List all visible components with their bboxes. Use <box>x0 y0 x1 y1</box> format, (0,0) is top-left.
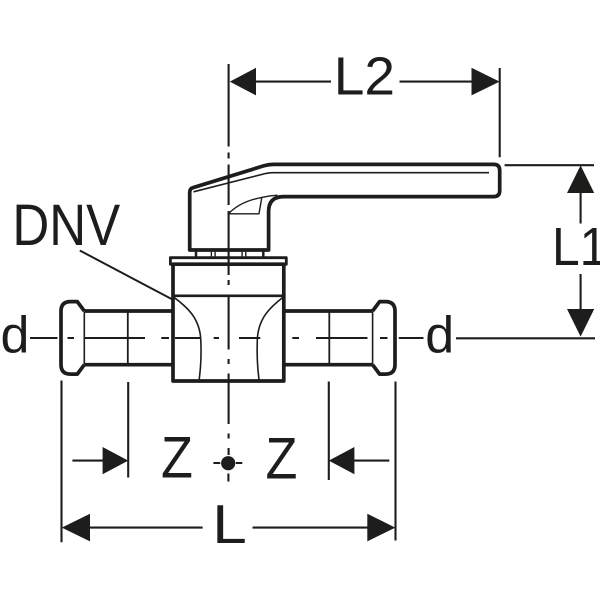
Z right dimension line <box>353 460 389 462</box>
lever handle outline <box>190 164 500 250</box>
body waterway S-curve right <box>257 297 283 379</box>
svg-text:d: d <box>425 306 454 364</box>
svg-text:d: d <box>1 306 30 364</box>
L left arrowhead <box>62 514 90 542</box>
L right extension line <box>394 382 396 541</box>
valve body rectangle <box>173 264 284 381</box>
Z right arrowhead <box>329 447 355 474</box>
stem serration ticks <box>211 252 245 257</box>
valve body rectangle <box>170 258 286 265</box>
svg-text:DNV: DNV <box>12 192 120 258</box>
right bell inner vertical <box>372 312 374 365</box>
svg-text:L: L <box>212 494 247 555</box>
svg-text:Z: Z <box>161 425 193 490</box>
L1 bottom arrowhead <box>567 309 594 337</box>
horizontal pipe centerline left part <box>30 337 424 339</box>
L right arrowhead <box>367 514 395 542</box>
vertical centerline of valve <box>228 64 230 455</box>
body shoulder line <box>173 294 284 297</box>
svg-text:L2: L2 <box>334 46 395 106</box>
L dimension line <box>88 527 368 529</box>
lever cam detail <box>229 197 262 213</box>
Z right extension line <box>328 382 330 481</box>
L1 dimension line <box>580 193 582 309</box>
L1 top arrowhead <box>567 165 594 193</box>
L1 top reference line <box>505 164 594 166</box>
left bell inner vertical <box>83 312 85 365</box>
Z left arrowhead <box>103 447 129 474</box>
L2 dimension line <box>255 81 472 83</box>
left tube <box>84 311 174 365</box>
svg-text:Z: Z <box>266 426 298 491</box>
svg-text:L1: L1 <box>552 216 600 276</box>
L2 right extension line <box>499 68 501 157</box>
L2 right arrowhead <box>472 68 500 96</box>
left press bell outline <box>61 302 84 375</box>
center dot <box>221 456 235 470</box>
center dot cross vertical below <box>227 474 229 482</box>
right socket step line <box>328 312 330 363</box>
right tube <box>283 311 373 365</box>
Z left extension line <box>127 382 129 478</box>
right press bell outline <box>373 302 395 375</box>
L2 left arrowhead <box>230 68 256 96</box>
DNV leader line <box>80 251 173 300</box>
body waterway S-curve left <box>174 297 201 379</box>
L left extension line <box>60 381 62 543</box>
lever cam tip connector <box>262 195 278 197</box>
Z left dimension line <box>72 460 104 462</box>
stem serration band <box>196 251 263 258</box>
center dot cross ticks <box>213 462 242 464</box>
left socket step line <box>127 312 129 363</box>
lever inner edge line <box>194 173 490 192</box>
horizontal pipe centerline right part (L1 bottom reference) <box>456 337 595 339</box>
